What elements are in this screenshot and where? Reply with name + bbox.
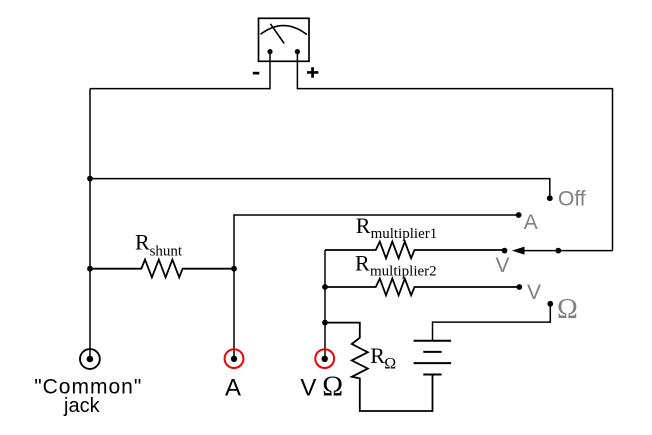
svg-text:shunt: shunt [150,243,183,259]
svg-text:Ω: Ω [384,355,396,372]
junction left rail / R_shunt [87,266,93,272]
svg-text:R: R [135,230,150,255]
switch contact Omega [547,301,553,307]
wire meter plus terminal to right rail [297,52,612,251]
meter terminal + (dot) [295,49,300,54]
switch contact A [516,212,522,218]
switch wiper arm with arrowhead [512,247,613,255]
battery B1 [414,341,452,375]
meter terminal - (dot) [267,49,272,54]
svg-text:R: R [355,251,370,276]
wire V riser (multiplier branch) [324,250,326,356]
svg-text:A: A [225,374,241,401]
meter movement M1 [259,18,310,61]
switch contact Off [547,195,553,201]
resistor R_multiplier1 [325,242,505,259]
label R_multiplier1 [356,213,437,242]
svg-text:jack: jack [63,395,101,417]
resistor R_omega (vertical) [325,323,433,411]
resistor R_multiplier2 [325,279,519,296]
svg-text:V: V [527,281,541,304]
svg-text:multiplier1: multiplier1 [371,226,438,242]
jack V-Omega [315,349,334,368]
label + [307,67,318,77]
junction on left rail (Off feed) [87,176,93,182]
wire meter minus terminal to left rail [90,52,270,89]
junction R_shunt / A riser [231,266,237,272]
junction riser / R_multiplier2 [322,284,328,290]
junction riser / R_omega branch [322,320,328,326]
wire battery positive to Omega contact [433,307,551,341]
svg-text:Off: Off [558,187,586,210]
switch contact V (lower) [516,284,522,290]
label R_omega [370,343,396,373]
svg-text:Ω: Ω [322,372,343,403]
svg-text:Ω: Ω [557,294,578,325]
svg-text:R: R [356,213,371,238]
svg-text:A: A [524,211,538,234]
label R_multiplier2 [355,251,437,280]
label - [253,72,259,75]
label "Common" jack [34,376,142,417]
wire left rail down to Common jack [89,89,91,357]
svg-text:R: R [370,343,385,368]
wire left rail to Off contact [90,179,550,196]
svg-text:multiplier2: multiplier2 [370,264,437,280]
resistor R_shunt [90,260,234,278]
wire A jack riser to switch contact A [234,215,519,356]
svg-text:V: V [496,254,510,277]
jack A [225,349,244,368]
jack Common [80,349,100,369]
svg-text:V: V [300,374,316,401]
label R_shunt [135,230,183,260]
switch wiper pivot dot [555,248,561,254]
switch contact V (upper) [502,248,508,254]
